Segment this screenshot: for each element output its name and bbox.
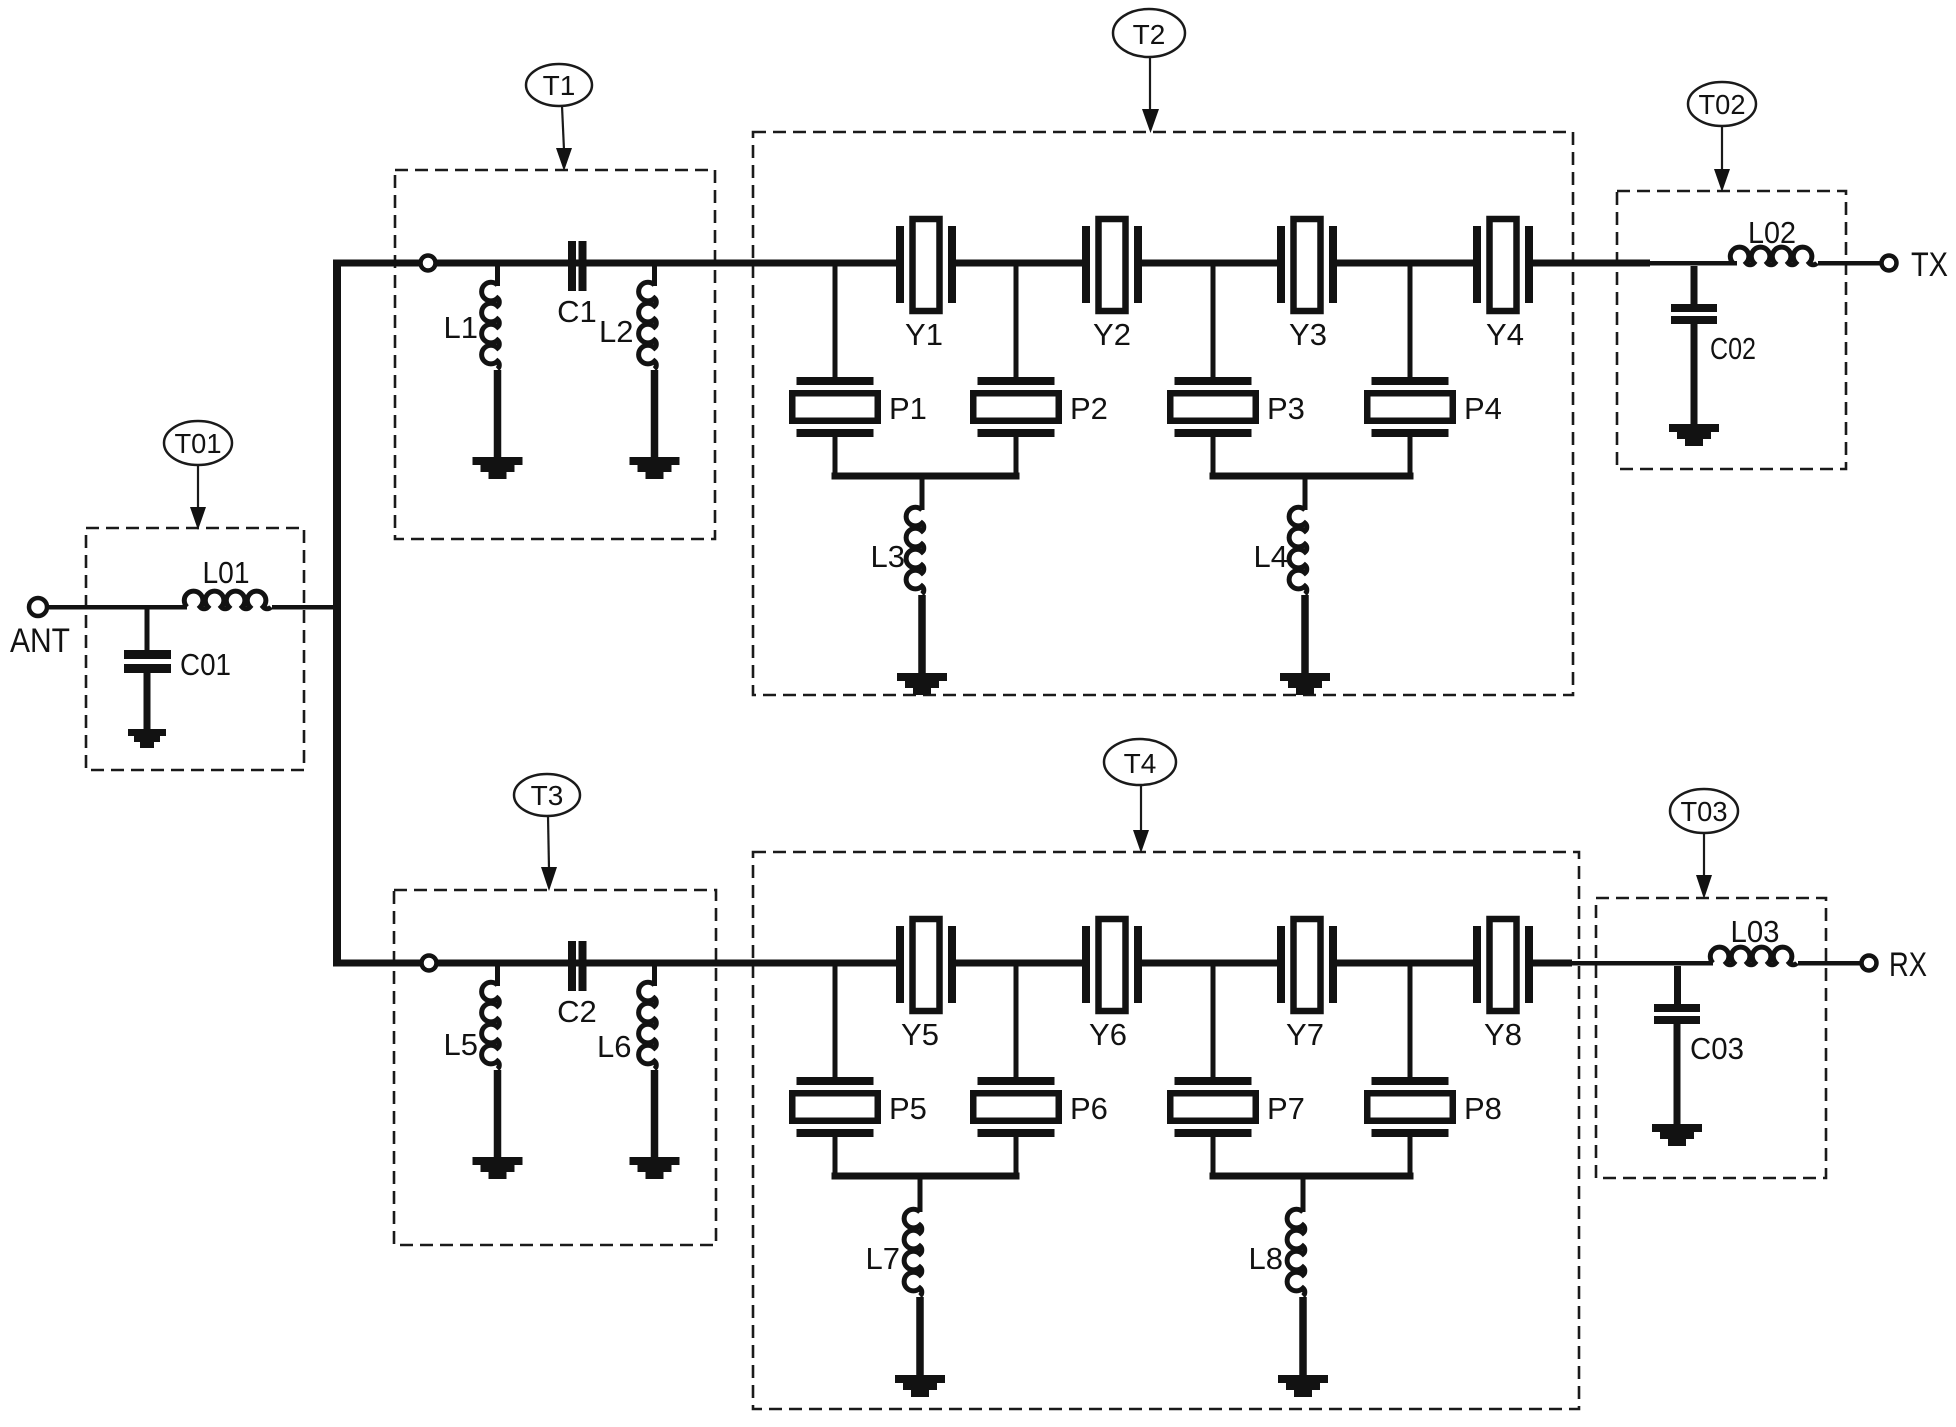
svg-text:Y3: Y3: [1289, 317, 1327, 352]
svg-text:Y4: Y4: [1486, 317, 1524, 352]
svg-text:P8: P8: [1464, 1091, 1502, 1126]
svg-text:T4: T4: [1124, 748, 1157, 779]
svg-text:L6: L6: [597, 1029, 631, 1064]
svg-text:Y8: Y8: [1484, 1017, 1522, 1052]
svg-text:L1: L1: [444, 310, 478, 345]
svg-text:C1: C1: [557, 294, 597, 329]
svg-text:P5: P5: [889, 1091, 927, 1126]
svg-text:P4: P4: [1464, 391, 1502, 426]
svg-text:L02: L02: [1748, 215, 1796, 250]
svg-text:Y2: Y2: [1093, 317, 1131, 352]
svg-text:C02: C02: [1710, 331, 1756, 366]
svg-text:Y7: Y7: [1286, 1017, 1324, 1052]
svg-text:C01: C01: [180, 647, 231, 682]
svg-text:L8: L8: [1249, 1241, 1283, 1276]
svg-text:P3: P3: [1267, 391, 1305, 426]
svg-text:T3: T3: [531, 780, 564, 811]
svg-text:P7: P7: [1267, 1091, 1305, 1126]
svg-text:T01: T01: [175, 428, 222, 459]
svg-text:L7: L7: [866, 1241, 900, 1276]
svg-text:TX: TX: [1911, 246, 1948, 284]
svg-text:T02: T02: [1699, 89, 1746, 120]
svg-text:P6: P6: [1070, 1091, 1108, 1126]
svg-text:L01: L01: [203, 555, 250, 590]
svg-text:L4: L4: [1254, 539, 1288, 574]
svg-text:L03: L03: [1731, 914, 1780, 949]
svg-text:C03: C03: [1690, 1031, 1744, 1066]
svg-text:ANT: ANT: [10, 622, 70, 660]
svg-text:Y5: Y5: [901, 1017, 939, 1052]
svg-text:P1: P1: [889, 391, 927, 426]
svg-text:L2: L2: [599, 314, 633, 349]
svg-text:Y1: Y1: [905, 317, 943, 352]
svg-text:T2: T2: [1133, 19, 1166, 50]
svg-text:T03: T03: [1681, 796, 1728, 827]
svg-text:P2: P2: [1070, 391, 1108, 426]
svg-text:C2: C2: [557, 994, 597, 1029]
svg-text:L5: L5: [444, 1027, 478, 1062]
svg-text:RX: RX: [1889, 946, 1927, 984]
svg-text:T1: T1: [543, 70, 576, 101]
svg-text:L3: L3: [871, 539, 905, 574]
svg-text:Y6: Y6: [1089, 1017, 1127, 1052]
